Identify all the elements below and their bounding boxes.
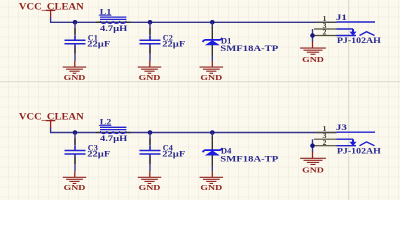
capacitor C1 22µF [65,34,111,49]
junction (rail / second capacitor) [148,130,153,135]
wire: vertical from VCC_CLEAN power port down to rail [50,17,52,22]
wire: capacitor C4 down to ground [149,155,151,172]
svg-text:2: 2 [323,140,328,147]
wire: rail down to capacitor C3 [74,133,76,151]
connector J3 PJ-102AH barrel jack [336,123,382,155]
svg-text:4.7µH: 4.7µH [100,24,128,33]
wire: capacitor C3 down to ground [74,155,76,172]
junction (connector J3 pin 2 / ground wire) [310,143,315,148]
connector J3 pin 2 (sleeve) [314,140,375,147]
connector J3 pin 1 (tip) [316,126,375,133]
diode D1 anode pin [211,45,213,56]
svg-text:GND: GND [302,165,325,174]
inductor L2 4.7µH (series in rail) [96,118,131,144]
ground symbol GND below capacitor C2 [138,67,162,82]
capacitor C4 pin segment (top) [149,138,151,145]
wire: connector J3 pin 3 to pin 2 to ground [312,139,314,152]
connector J3 pin 3 (switch) [314,133,357,146]
svg-text:22µF: 22µF [162,150,185,159]
svg-text:GND: GND [200,183,223,192]
diode D4 anode pin [211,155,213,166]
ground symbol GND below capacitor C4 [138,177,162,192]
capacitor C4 22µF [140,144,186,159]
svg-text:22µF: 22µF [87,150,110,159]
ground symbol GND below capacitor C3 [63,177,87,192]
svg-text:GND: GND [139,183,162,192]
wire: diode D4 anode to ground [211,166,213,172]
svg-text:GND: GND [64,73,87,82]
junction (rail / first capacitor) [73,130,78,135]
svg-text:J1: J1 [336,13,347,22]
svg-text:J3: J3 [336,123,347,132]
capacitor C3 22µF [65,144,111,159]
wire: rail down to capacitor C1 [74,22,76,40]
inductor L1 4.7µH (series in rail) [96,7,131,33]
junction (connector J1 pin 2 / ground wire) [310,33,315,38]
svg-text:22µF: 22µF [162,39,185,48]
svg-text:GND: GND [139,73,162,82]
wire: rail down to diode D1 [211,22,213,28]
capacitor C1 pin segment (bottom) [74,48,76,54]
capacitor C3 pin segment (top) [74,138,76,145]
ground symbol GND below connector J1 [300,48,326,64]
ground pin below capacitor C2 [149,61,151,67]
ground pin below diode D4 [211,171,213,177]
svg-text:GND: GND [64,183,87,192]
power port VCC_CLEAN (net label, row y-offset 0.0) [19,1,84,17]
junction (rail / TVS diode) [210,20,215,25]
power port VCC_CLEAN (net label, row y-offset 110.2) [19,112,84,128]
wire: capacitor C1 down to ground [74,45,76,62]
capacitor C2 22µF [140,34,186,49]
svg-text:PJ-102AH: PJ-102AH [337,36,382,45]
ground pin below diode D1 [211,61,213,67]
connector J1 pin 3 (switch) [314,23,357,36]
svg-text:PJ-102AH: PJ-102AH [337,146,382,155]
wire: rail down to capacitor C4 [149,133,151,151]
capacitor C1 pin segment (top) [74,28,76,35]
ground pin below capacitor C4 [149,171,151,177]
svg-text:4.7µH: 4.7µH [100,134,128,143]
wire: horizontal VCC_CLEAN rail [50,132,337,134]
svg-text:SMF18A-TP: SMF18A-TP [220,44,278,53]
wire: rail down to capacitor C2 [149,22,151,40]
diode D4 cathode pin [211,137,213,150]
connector J1 pin 2 (sleeve) [314,30,375,37]
svg-text:GND: GND [200,73,223,82]
ground pin below connector J1 [312,42,314,48]
sheet zone divider lines [348,0,350,200]
capacitor C3 pin segment (bottom) [74,158,76,164]
svg-text:2: 2 [323,30,328,37]
svg-text:SMF18A-TP: SMF18A-TP [220,154,278,163]
capacitor C2 pin segment (bottom) [149,48,151,54]
ground pin below capacitor C3 [74,171,76,177]
ground symbol GND below connector J3 [300,158,326,174]
wire: capacitor C2 down to ground [149,45,151,62]
wire: vertical from VCC_CLEAN power port down to rail [50,128,52,133]
connector J1 pin 1 (tip) [316,16,375,23]
wire: rail down to diode D4 [211,133,213,139]
svg-text:22µF: 22µF [87,39,110,48]
wire: connector J1 pin 3 to pin 2 to ground [312,29,314,42]
junction (rail / TVS diode) [210,130,215,135]
ground symbol GND below capacitor C1 [63,67,87,82]
diode D1 cathode pin [211,27,213,40]
TVS diode D1 SMF18A-TP (cathode bar with zener wings + triangle) [203,36,279,53]
ground pin below capacitor C1 [74,61,76,67]
svg-text:GND: GND [302,55,325,64]
TVS diode D4 SMF18A-TP (cathode bar with zener wings + triangle) [203,147,279,164]
capacitor C2 pin segment (top) [149,28,151,35]
wire: horizontal VCC_CLEAN rail [50,21,337,23]
junction (rail / first capacitor) [73,20,78,25]
capacitor C4 pin segment (bottom) [149,158,151,164]
wire: diode D1 anode to ground [211,56,213,62]
ground pin below connector J3 [312,152,314,158]
ground symbol GND below diode D1 [200,67,224,82]
junction (rail / second capacitor) [148,20,153,25]
connector J1 PJ-102AH barrel jack [336,13,382,45]
ground symbol GND below diode D4 [200,177,224,192]
